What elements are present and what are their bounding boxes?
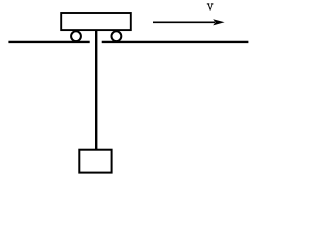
table surface right segment bbox=[102, 41, 249, 43]
table surface left segment bbox=[8, 41, 89, 43]
right wheel bbox=[112, 31, 122, 41]
hanging block bbox=[79, 150, 111, 173]
velocity arrow shaft bbox=[153, 21, 215, 23]
string bbox=[95, 30, 97, 150]
velocity arrowhead bbox=[213, 19, 224, 25]
cart body bbox=[61, 13, 131, 30]
label v bbox=[207, 4, 214, 11]
left wheel bbox=[71, 31, 81, 41]
